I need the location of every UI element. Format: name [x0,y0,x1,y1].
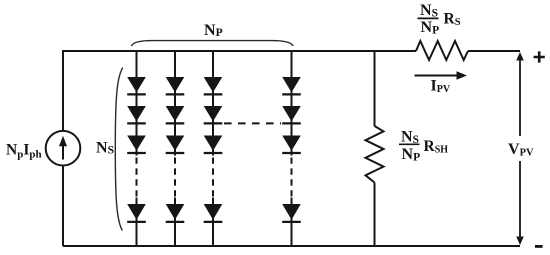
diode D4b [282,106,301,121]
wire column 4 lower [291,198,293,247]
diode D3b [204,106,223,121]
minus terminal [535,245,543,248]
current source arrow [62,145,64,160]
resistor RS zigzag [416,41,468,60]
wire top (left section) [63,50,416,52]
diode D1n [127,204,146,220]
diode D3n [204,204,223,220]
wire top (right section after Rs) [468,50,520,52]
wire column 1 upper [136,51,138,156]
diode D2c [166,136,185,151]
diode D1a [127,77,146,92]
wire column 1 lower [136,198,138,247]
voltage arrow lower (points down to -) [519,161,521,238]
wire column 2 dashed continuation [174,158,176,198]
diode string column 2 [166,51,185,246]
brace NP (top arc) [132,41,294,46]
wire column 4 upper [291,51,293,156]
diode string column 4 [282,51,301,246]
wire column 3 upper [212,51,214,156]
diode D2b [166,106,185,121]
wire column 3 dashed continuation [212,158,214,198]
wire column 2 lower [174,198,176,247]
diode D1c [127,136,146,151]
wire bottom [63,245,520,247]
diode D3a [204,77,223,92]
brace NS (left parenthesis) [115,68,123,231]
diode D2a [166,77,185,92]
diode D4a [282,77,301,92]
diode string column 1 [127,51,146,246]
diode string column 3 [204,51,223,246]
plus terminal [534,51,545,62]
diode D4c [282,136,301,151]
diode D4n [282,204,301,220]
wire column 3 lower [212,198,214,247]
diode D1b [127,106,146,121]
wire left lower [62,166,64,247]
voltage arrow upper (points up to +) [516,52,524,61]
dashed link between string 3 and string 4 [224,122,281,124]
wire column 2 upper [174,51,176,156]
diode D3c [204,136,223,151]
resistor RSH zigzag [366,126,384,183]
wire shunt branch lower [374,183,376,247]
wire column 1 dashed continuation [136,158,138,198]
wire left upper [62,50,64,131]
wire shunt branch upper [374,51,376,126]
current source Iph circle [46,131,81,166]
arrow IPV [415,75,458,77]
diode D2n [166,204,185,220]
wire column 4 dashed continuation [291,158,293,198]
